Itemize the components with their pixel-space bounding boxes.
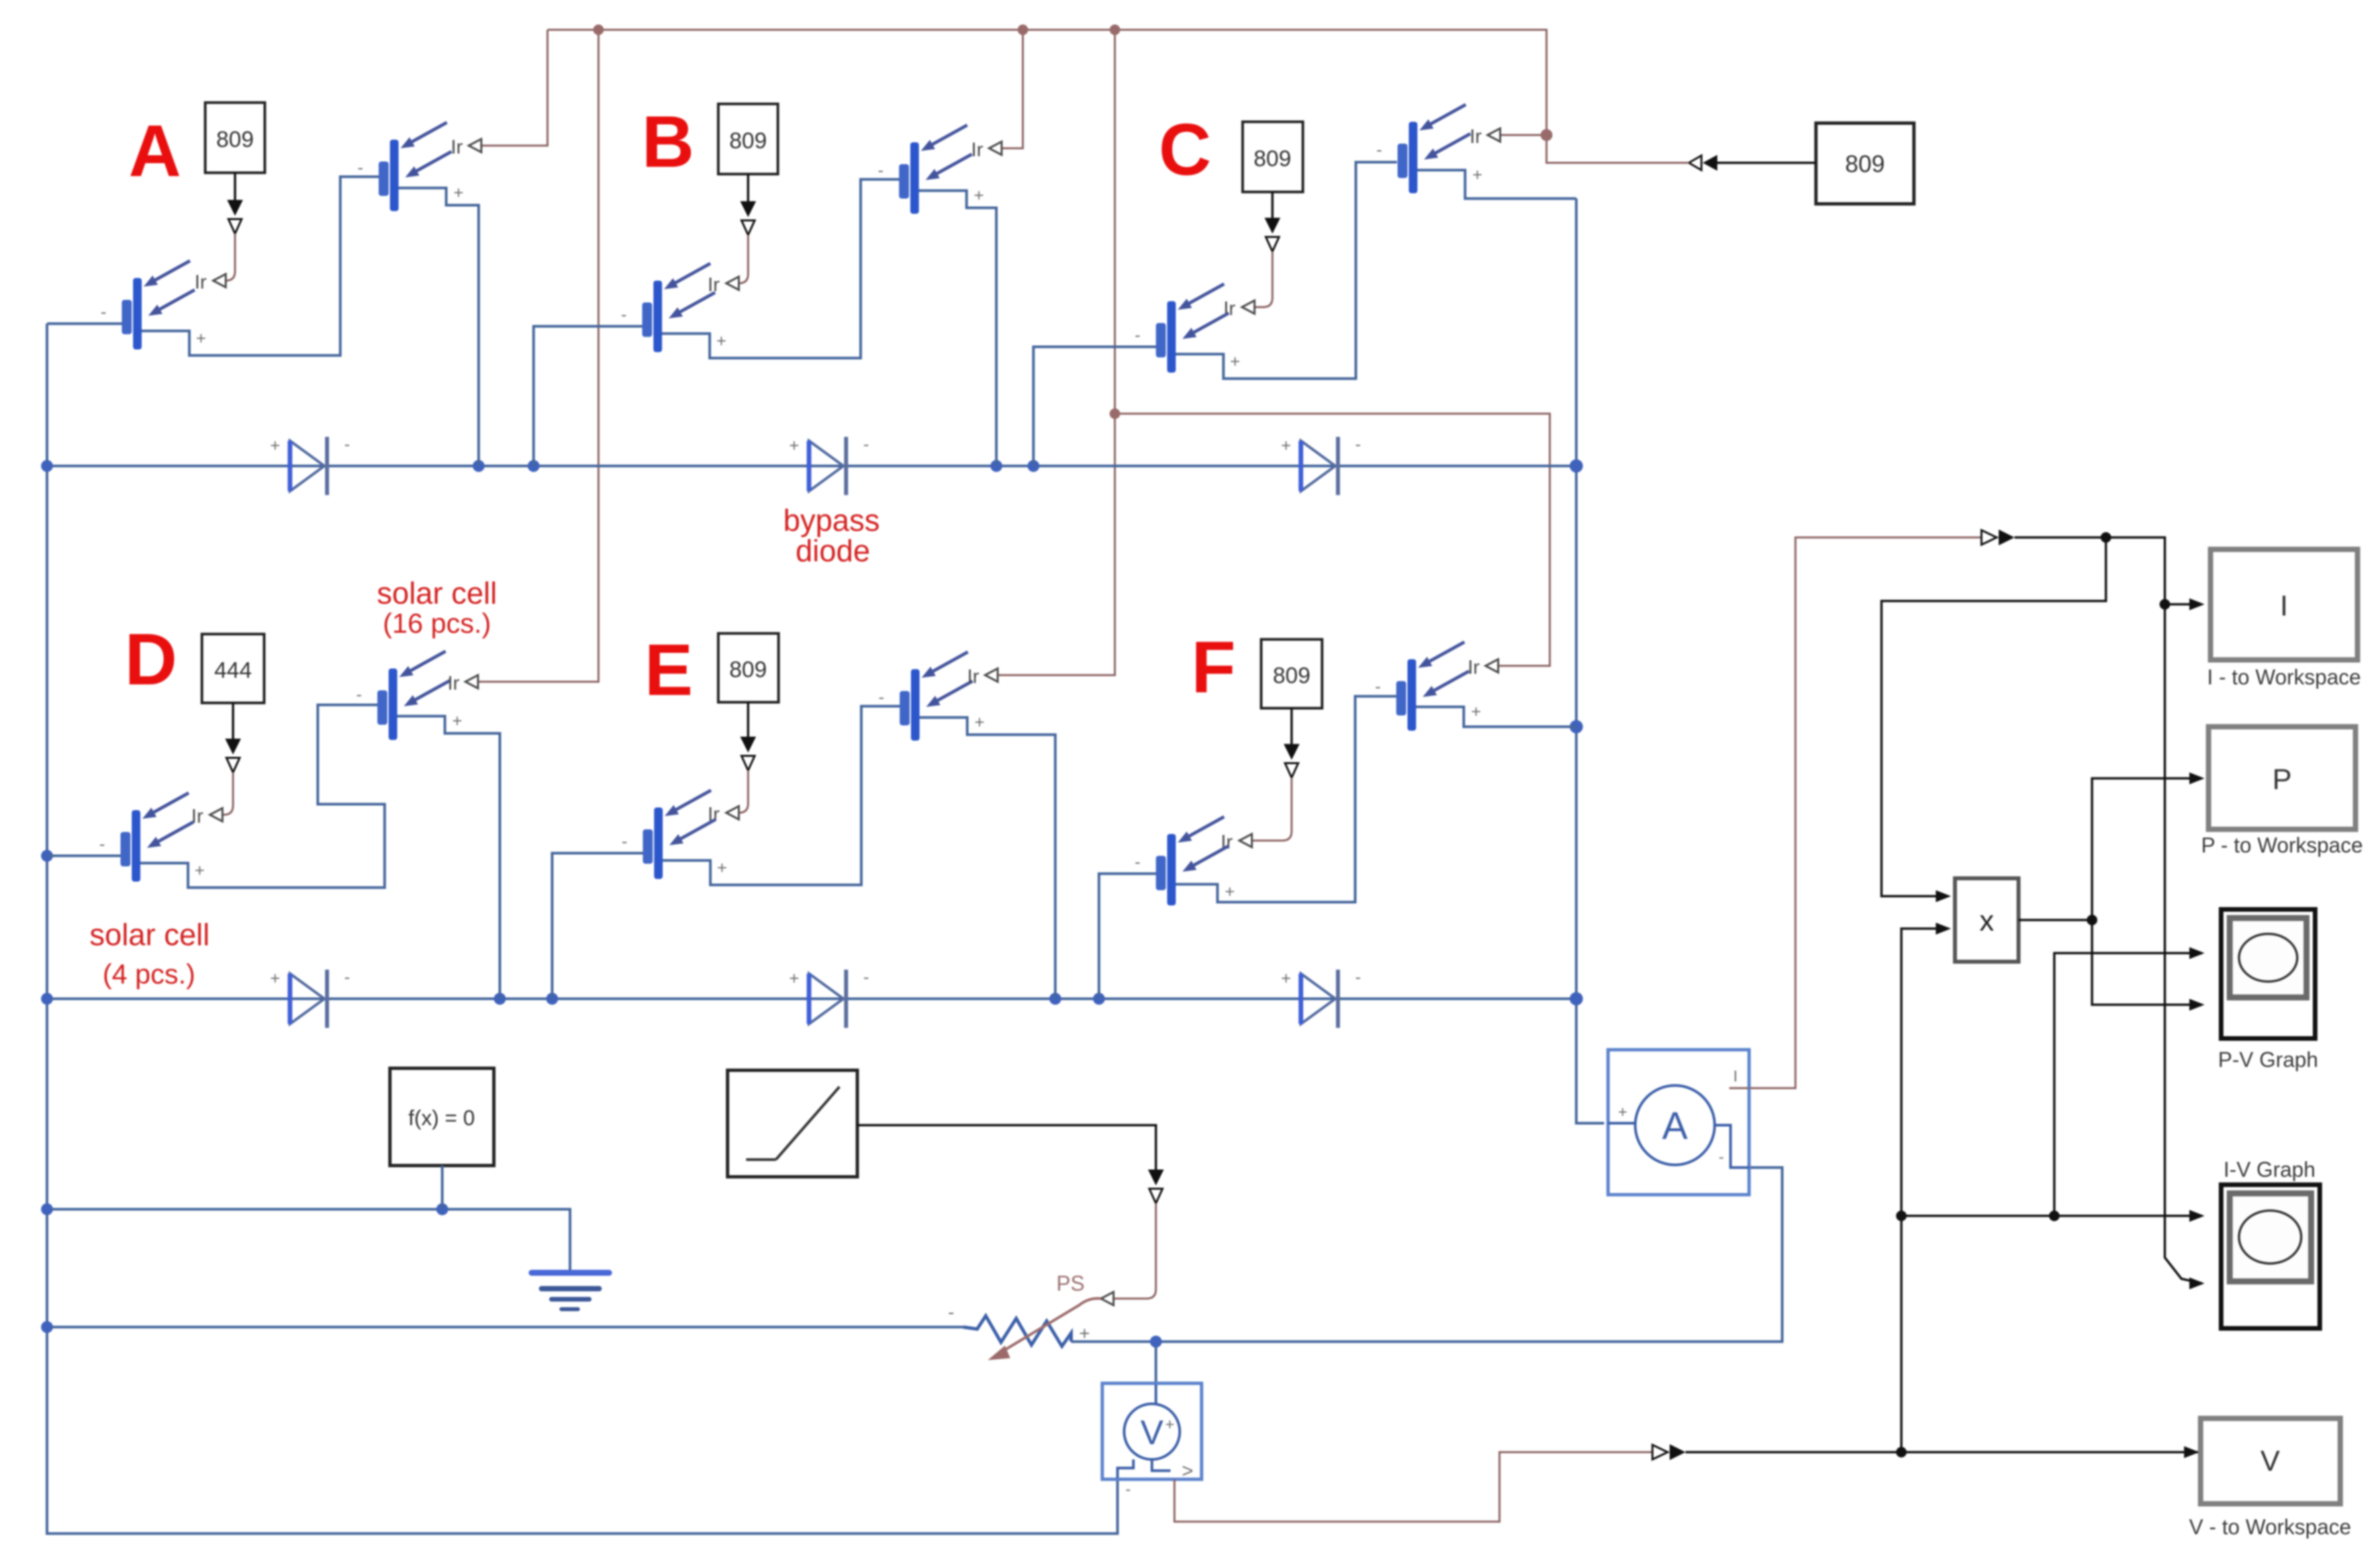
wire E lower plus to E upper minus <box>663 706 900 885</box>
svg-text:+: + <box>789 968 799 988</box>
converter S->PS (ramp) <box>1148 1170 1164 1203</box>
converter S->PS (B) <box>740 201 756 235</box>
wire brown C branch <box>1500 134 1547 136</box>
wire brown to Ir port (A lower) <box>226 234 235 281</box>
svg-text:Ir: Ir <box>195 271 207 293</box>
port Ir (E upper cell) <box>985 668 998 682</box>
wire brown E/F trunk <box>998 30 1115 675</box>
wire ramp output <box>857 1125 1156 1170</box>
wire C upper plus to collector rail <box>1417 170 1576 199</box>
svg-text:solar cell: solar cell <box>377 576 497 610</box>
solar cell E lower <box>643 790 716 879</box>
svg-text:-: - <box>879 687 884 707</box>
block P-V Graph scope <box>2221 909 2315 1038</box>
constant block 809 (F) <box>1261 639 1322 708</box>
solar cell E upper <box>900 652 973 741</box>
wire I down to I-V graph input 2 <box>2165 604 2202 1283</box>
wire right collector rail <box>1576 199 1604 1123</box>
wire C lower minus down to bus1 <box>1033 347 1156 466</box>
svg-text:Ir: Ir <box>448 672 459 694</box>
svg-text:-: - <box>1125 1481 1131 1498</box>
wire brown to Ir port (D lower) <box>222 772 233 815</box>
wire brown B branch <box>1002 30 1023 148</box>
wire V to P-V graph input 1 <box>2054 953 2202 1216</box>
bypass diode D5 (bus2 middle) <box>809 970 846 1028</box>
svg-text:(16 pcs.): (16 pcs.) <box>383 608 491 639</box>
constant block 444 (D) <box>202 634 264 703</box>
svg-text:-: - <box>878 160 884 180</box>
variable resistor PS (rheostat zigzag) <box>963 1316 1071 1346</box>
solar cell F lower <box>1156 817 1229 905</box>
port Ir (B upper cell) <box>989 142 1002 155</box>
svg-text:PS: PS <box>1057 1271 1085 1295</box>
svg-text:+: + <box>452 711 462 731</box>
svg-text:I: I <box>2280 590 2288 622</box>
svg-text:I-V Graph: I-V Graph <box>2224 1158 2316 1181</box>
wire C lower plus to C upper minus <box>1176 162 1397 379</box>
wire D lower minus to left rail <box>47 854 120 857</box>
svg-text:809: 809 <box>216 127 254 152</box>
svg-text:-: - <box>1719 1148 1724 1166</box>
S-PS converter (left-pointing) <box>1689 155 1717 171</box>
svg-text:V: V <box>1141 1414 1164 1452</box>
wire brown top distribution bus <box>479 30 1689 682</box>
node V branch dot <box>1896 1447 1907 1457</box>
wire rheostat rail <box>47 1326 963 1328</box>
converter PS->S (I) <box>1981 529 2015 545</box>
wire A lower plus to A upper minus <box>142 177 379 355</box>
port Ir (C lower cell) <box>1242 300 1255 314</box>
svg-text:+: + <box>716 331 726 351</box>
svg-text:C: C <box>1159 109 1211 191</box>
wire V signal to workspace <box>1686 1451 2198 1453</box>
solar cell F upper <box>1396 642 1469 731</box>
constant block 809 (shared, far right) <box>1816 123 1914 204</box>
svg-text:-: - <box>1375 676 1381 696</box>
wire F upper plus to collector rail <box>1416 707 1576 727</box>
svg-text:-: - <box>1135 325 1141 345</box>
svg-text:-: - <box>1135 852 1141 872</box>
svg-text:+: + <box>1165 1416 1174 1434</box>
svg-text:x: x <box>1979 905 1994 937</box>
svg-text:A: A <box>1662 1105 1688 1148</box>
wire P output <box>2019 919 2092 921</box>
svg-text:>: > <box>1182 1460 1194 1482</box>
converter PS->S (V) <box>1652 1444 1686 1460</box>
svg-text:444: 444 <box>214 658 252 683</box>
converter S->PS (D) <box>225 739 241 772</box>
svg-text:-: - <box>1355 967 1361 987</box>
port Ir (F upper cell) <box>1486 659 1498 672</box>
svg-text:-: - <box>101 302 107 322</box>
svg-text:+: + <box>453 183 463 203</box>
svg-text:Ir: Ir <box>971 139 983 161</box>
constant block 809 (B) <box>718 104 778 174</box>
svg-text:P-V Graph: P-V Graph <box>2218 1048 2318 1072</box>
wire brown F branch <box>1115 414 1550 666</box>
svg-text:Ir: Ir <box>1468 657 1480 678</box>
svg-text:V - to Workspace: V - to Workspace <box>2189 1515 2352 1539</box>
wire P to workspace <box>2092 778 2202 920</box>
bypass diode D3 (bus1 right) <box>1301 437 1338 495</box>
wire signal down from constant E <box>747 702 749 737</box>
wire brown to Ir port (C lower) <box>1255 252 1272 307</box>
svg-text:E: E <box>644 629 692 711</box>
constant block 809 (C) <box>1243 122 1303 192</box>
svg-text:I: I <box>1733 1068 1738 1085</box>
svg-text:809: 809 <box>1273 663 1311 688</box>
wire solver to ground rail <box>441 1166 444 1209</box>
wire I to product input 1 <box>1881 537 2106 896</box>
port Ir (D upper cell) <box>465 675 478 688</box>
svg-text:+: + <box>1230 351 1240 371</box>
wire B lower minus down to bus1 <box>534 326 642 466</box>
node dots on electrical net <box>41 459 1583 1348</box>
wire brown to Ir port (E lower) <box>739 770 748 813</box>
wire brown A branch <box>481 30 547 146</box>
svg-text:+: + <box>270 968 280 988</box>
block P to workspace <box>2209 727 2356 829</box>
block voltage sensor V <box>1102 1383 1202 1498</box>
wire D upper plus down to bus2 <box>397 716 500 999</box>
block ramp source <box>728 1070 857 1177</box>
port Ir (E lower cell) <box>726 806 739 819</box>
wire brown ammeter I output <box>1750 537 1981 1088</box>
converter S->PS (A) <box>227 200 243 234</box>
wire E lower minus down to bus2 <box>552 853 643 999</box>
wire signal down from constant B <box>747 174 749 201</box>
solar cell A lower <box>122 261 195 349</box>
svg-text:B: B <box>642 101 694 183</box>
node dots on brown net <box>593 24 1552 419</box>
svg-text:P: P <box>2272 763 2291 796</box>
block Solver Configuration f(x)=0 <box>390 1068 494 1166</box>
solar cell C lower <box>1156 284 1229 373</box>
solar cell C upper <box>1398 105 1470 193</box>
wire P to P-V graph input 2 <box>2092 920 2202 1005</box>
wire B upper plus down to bus1 <box>919 191 996 466</box>
wire B lower plus to B upper minus <box>662 179 900 358</box>
svg-text:809: 809 <box>1845 150 1885 177</box>
wire signal down from constant A <box>234 173 236 200</box>
svg-text:+: + <box>1079 1323 1090 1344</box>
block V to workspace <box>2201 1418 2340 1504</box>
bypass diode D2 (bus1 middle) <box>809 437 846 495</box>
svg-text:+: + <box>975 712 984 732</box>
block I to workspace <box>2211 549 2357 660</box>
converter S->PS (E) <box>740 737 756 770</box>
solar cell A upper <box>379 122 452 211</box>
wire brown voltmeter PS output <box>1174 1452 1652 1522</box>
svg-text:+: + <box>270 436 280 455</box>
wire solver ground rail <box>47 1209 570 1272</box>
port Ir (D lower cell) <box>210 808 222 821</box>
svg-text:-: - <box>356 684 362 704</box>
wire V up to product and graphs <box>1901 929 1942 1452</box>
port Ir (A lower cell) <box>213 274 226 287</box>
solar cell B lower <box>642 263 715 352</box>
svg-text:-: - <box>621 304 627 324</box>
wire D lower plus to D upper minus (S-path) <box>140 705 385 888</box>
port PS (wiper control) <box>1101 1292 1114 1305</box>
svg-text:diode: diode <box>796 533 871 568</box>
bypass diode D6 (bus2 right) <box>1301 970 1338 1028</box>
wire brown to Ir port (B lower) <box>739 235 748 283</box>
block product x <box>1955 878 2019 962</box>
wiper arrow through rheostat <box>1001 1299 1101 1352</box>
svg-text:I - to Workspace: I - to Workspace <box>2207 665 2361 689</box>
svg-text:P - to Workspace: P - to Workspace <box>2201 833 2363 857</box>
svg-text:809: 809 <box>730 657 767 682</box>
port Ir (C upper cell) <box>1488 128 1500 142</box>
bypass diode D4 (bus2 left) <box>290 970 327 1028</box>
svg-text:F: F <box>1191 627 1235 708</box>
svg-text:+: + <box>1471 702 1481 721</box>
wire left rail <box>47 324 1118 1534</box>
wire V to I-V graph input 1 <box>1901 1215 2202 1217</box>
wire A lower minus to left rail <box>47 322 122 325</box>
svg-text:-: - <box>622 831 628 851</box>
port Ir (B lower cell) <box>726 277 739 290</box>
svg-text:(4 pcs.): (4 pcs.) <box>103 958 195 989</box>
wire bus2 lower bypass bus <box>47 997 1576 1000</box>
svg-text:809: 809 <box>1254 146 1292 171</box>
converter S->PS (C) <box>1264 218 1280 252</box>
svg-text:+: + <box>717 858 727 878</box>
svg-text:-: - <box>99 834 105 854</box>
svg-text:+: + <box>1281 968 1291 988</box>
wire I signal net <box>2015 537 2202 604</box>
wire F lower minus down to bus2 <box>1099 874 1156 999</box>
wire brown to Ir port (F lower) <box>1252 778 1292 841</box>
svg-text:-: - <box>863 967 869 987</box>
svg-text:bypass: bypass <box>783 503 880 537</box>
svg-text:809: 809 <box>730 128 767 154</box>
solar cell D upper <box>377 651 450 740</box>
solar cell D lower <box>120 793 193 882</box>
wire rheostat right lead to ammeter minus <box>1071 1168 1782 1342</box>
svg-text:+: + <box>1472 165 1482 185</box>
svg-text:A: A <box>128 111 181 192</box>
svg-text:Ir: Ir <box>967 666 979 688</box>
svg-text:solar cell: solar cell <box>89 917 210 952</box>
wire black from shared 809 to converter <box>1717 161 1816 164</box>
svg-text:-: - <box>1355 434 1361 454</box>
bypass diode D1 (bus1 left) <box>290 437 327 495</box>
wire brown D branch <box>479 30 598 682</box>
wire signal down from constant D <box>232 703 234 739</box>
converter S->PS (F) <box>1284 744 1300 778</box>
solar cell B upper <box>899 125 972 214</box>
svg-text:+: + <box>1281 436 1291 455</box>
constant block 809 (E) <box>718 633 779 702</box>
wire E upper plus down to bus2 <box>920 717 1055 999</box>
svg-text:+: + <box>195 860 205 880</box>
svg-text:V: V <box>2260 1445 2280 1477</box>
svg-text:-: - <box>1376 140 1382 160</box>
port Ir (F lower cell) <box>1239 834 1252 847</box>
svg-text:+: + <box>974 185 984 205</box>
svg-text:-: - <box>344 967 350 987</box>
diode +/- labels <box>270 434 1361 988</box>
svg-text:-: - <box>948 1302 954 1322</box>
svg-text:-: - <box>863 434 869 454</box>
svg-text:Ir: Ir <box>1470 126 1482 148</box>
block current sensor A <box>1608 1050 1749 1195</box>
svg-text:+: + <box>196 328 206 348</box>
svg-text:-: - <box>357 158 363 177</box>
svg-text:+: + <box>1618 1103 1627 1121</box>
svg-text:f(x) = 0: f(x) = 0 <box>408 1106 475 1130</box>
wire brown down to PS port <box>1114 1203 1156 1299</box>
svg-text:+: + <box>1225 882 1235 901</box>
constant block 809 (A) <box>205 103 265 173</box>
wire F lower plus to F upper minus <box>1176 696 1397 902</box>
wire A upper plus down to bus1 <box>399 188 479 466</box>
wire signal down from constant C <box>1271 192 1274 218</box>
svg-text:D: D <box>124 619 177 700</box>
wire signal down from constant F <box>1290 708 1293 744</box>
wire bus1 upper bypass bus <box>47 465 1576 467</box>
port Ir (A upper cell) <box>469 139 481 152</box>
svg-text:-: - <box>344 434 350 454</box>
svg-text:+: + <box>789 436 799 455</box>
wire voltmeter plus tap <box>1155 1342 1157 1385</box>
svg-text:Ir: Ir <box>451 136 463 158</box>
ground <box>532 1273 609 1309</box>
